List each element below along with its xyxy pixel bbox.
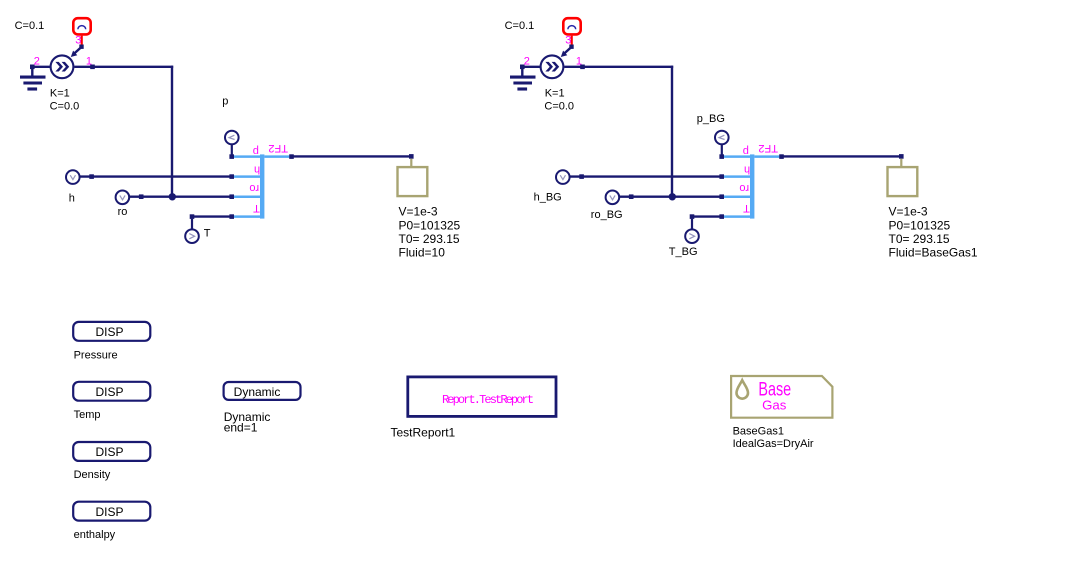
ground [20, 67, 46, 89]
junction dot at vertical wire [169, 193, 176, 200]
wire TF2 to volume RV [782, 155, 902, 157]
wire pin1 right to corner [564, 66, 673, 68]
TF2 port T dot [229, 214, 234, 219]
flow source LS (double chevron circle) [51, 55, 74, 78]
TF2 port label p (rotated) [743, 145, 749, 157]
wire T to TF2 port T [192, 215, 232, 217]
dynamic simulation element Dynamic1 [224, 382, 301, 400]
svg-text:ro: ro [118, 206, 128, 218]
wire pin2 to ground [31, 66, 50, 68]
sensor node p [225, 131, 239, 156]
pin 3 node dot [569, 45, 573, 49]
wire ro to TF2 port ro [129, 195, 232, 197]
pin 1 node dot [90, 65, 95, 70]
svg-text:h: h [69, 193, 75, 205]
ground node dot [520, 65, 525, 70]
TF2 gas component LTF2 (light blue bus, rotated 180) [233, 154, 289, 218]
svg-text:V=1e-3: V=1e-3 [399, 205, 438, 219]
wire pin1 right to corner [74, 66, 173, 68]
TF2 name label (rotated) [758, 142, 778, 154]
wire T_BG to TF2 port T [692, 215, 722, 217]
controller icon RA (red rounded box with arc) [563, 18, 580, 34]
sensor node ro [116, 191, 130, 205]
volume parameter labels [399, 205, 461, 260]
TF2 port T dot [719, 214, 724, 219]
svg-text:Fluid=BaseGas1: Fluid=BaseGas1 [889, 246, 978, 260]
base gas element BaseGas1 (khaki tag) [731, 376, 832, 418]
svg-text:DISP: DISP [95, 325, 123, 339]
pin 3 node dot [79, 45, 83, 49]
node dot on ro wire [139, 194, 144, 199]
sensor node ro_BG [606, 191, 620, 205]
volume parameter labels [889, 205, 978, 260]
svg-text:TF2: TF2 [268, 142, 288, 154]
signal wire (red) controller pin 3 [81, 36, 83, 45]
sensor node h [66, 170, 80, 184]
svg-text:ro_BG: ro_BG [591, 209, 623, 221]
sensor node h_BG [556, 170, 570, 184]
svg-text:T: T [253, 202, 260, 214]
flow source RS (double chevron circle) [541, 55, 564, 78]
sensor node T [185, 219, 199, 243]
svg-text:2: 2 [34, 55, 40, 67]
svg-text:Pressure: Pressure [74, 349, 118, 361]
svg-text:C=0.1: C=0.1 [15, 20, 45, 32]
svg-text:Temp: Temp [74, 409, 101, 421]
svg-text:C=0.1: C=0.1 [505, 20, 535, 32]
TF2 port p dot [719, 154, 724, 159]
TF2 port p dot [229, 154, 234, 159]
wire pin2 to ground [521, 66, 540, 68]
svg-text:h: h [254, 164, 260, 176]
svg-text:P0=101325: P0=101325 [889, 218, 951, 232]
TF2 gas component RTF2 (light blue bus, rotated 180) [723, 154, 779, 218]
TF2 name label (rotated) [268, 142, 288, 154]
volume port dot [899, 154, 904, 159]
svg-text:TestReport1: TestReport1 [391, 426, 456, 440]
svg-text:T: T [204, 228, 211, 240]
svg-text:T_BG: T_BG [669, 246, 698, 258]
TF2 main port dot [289, 154, 294, 159]
svg-text:p: p [743, 145, 749, 157]
TF2 port label ro (rotated) [249, 182, 259, 194]
svg-text:T0= 293.15: T0= 293.15 [889, 232, 950, 246]
svg-text:T: T [743, 202, 750, 214]
svg-text:C=0.0: C=0.0 [50, 101, 80, 113]
svg-text:V=1e-3: V=1e-3 [889, 205, 928, 219]
svg-text:Density: Density [74, 469, 111, 481]
volume element LV (khaki box) [398, 159, 428, 196]
svg-text:ro: ro [739, 182, 749, 194]
TF2 port label T (rotated) [743, 202, 750, 214]
volume element RV (khaki box) [888, 159, 918, 196]
svg-text:ro: ro [249, 182, 259, 194]
node dot on h wire [89, 174, 94, 179]
wire h to TF2 port h [80, 175, 232, 177]
wire down from corner to junction [171, 66, 173, 197]
svg-text:P0=101325: P0=101325 [399, 218, 461, 232]
svg-text:K=1: K=1 [545, 88, 565, 100]
TF2 port label h (rotated) [254, 164, 260, 176]
TF2 main port dot [779, 154, 784, 159]
wire TF2 to volume LV [292, 155, 412, 157]
svg-text:end=1: end=1 [224, 421, 258, 435]
controller icon LA (red rounded box with arc) [73, 18, 90, 34]
svg-text:DISP: DISP [95, 445, 123, 459]
wire down from corner to junction [671, 66, 673, 197]
svg-text:p: p [222, 96, 228, 108]
ground node dot [30, 65, 35, 70]
svg-text:Fluid=10: Fluid=10 [399, 246, 446, 260]
TF2 port label ro (rotated) [739, 182, 749, 194]
wire h_BG to TF2 port h [570, 175, 722, 177]
svg-text:TF2: TF2 [758, 142, 778, 154]
svg-text:IdealGas=DryAir: IdealGas=DryAir [733, 438, 814, 450]
wire ro_BG to TF2 port ro [619, 195, 722, 197]
svg-text:p_BG: p_BG [697, 113, 725, 125]
signal wire (red) controller pin 3 [571, 36, 573, 45]
junction dot at vertical wire [669, 193, 676, 200]
TF2 port ro dot [719, 194, 724, 199]
display element DISP4 [73, 502, 150, 521]
display element DISP2 [73, 382, 150, 401]
signal arrow to source LS [71, 47, 82, 57]
svg-text:2: 2 [524, 55, 530, 67]
svg-text:K=1: K=1 [50, 88, 70, 100]
TF2 port label p (rotated) [253, 145, 259, 157]
signal arrow to source RS [561, 47, 572, 57]
node dot on T_BG branch [690, 214, 695, 219]
sensor node T_BG [685, 219, 699, 243]
TF2 port h dot [719, 174, 724, 179]
TF2 port h dot [229, 174, 234, 179]
TF2 port ro dot [229, 194, 234, 199]
TF2 port label T (rotated) [253, 202, 260, 214]
volume port dot [409, 154, 414, 159]
svg-text:DISP: DISP [95, 505, 123, 519]
report element TestReport1 [408, 377, 556, 417]
svg-text:Report.TestReport: Report.TestReport [442, 393, 533, 407]
node dot on h_BG wire [579, 174, 584, 179]
svg-text:p: p [253, 145, 259, 157]
svg-text:h: h [744, 164, 750, 176]
svg-text:BaseGas1: BaseGas1 [733, 426, 784, 438]
svg-text:Dynamic: Dynamic [234, 385, 281, 399]
TF2 port label h (rotated) [744, 164, 750, 176]
svg-text:C=0.0: C=0.0 [544, 101, 574, 113]
svg-text:enthalpy: enthalpy [74, 529, 116, 541]
svg-text:DISP: DISP [95, 385, 123, 399]
ground [510, 67, 536, 89]
svg-text:T0= 293.15: T0= 293.15 [399, 232, 460, 246]
display element DISP3 [73, 442, 150, 461]
pin 1 node dot [580, 65, 585, 70]
node dot on ro_BG wire [629, 194, 634, 199]
sensor node p_BG [715, 131, 729, 156]
node dot on T branch [190, 214, 195, 219]
display element DISP1 [73, 322, 150, 341]
svg-text:Gas: Gas [762, 398, 787, 413]
svg-text:h_BG: h_BG [534, 192, 562, 204]
